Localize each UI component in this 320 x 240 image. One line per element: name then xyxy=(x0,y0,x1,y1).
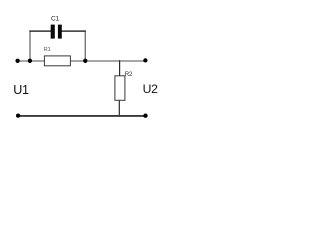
svg-text:U2: U2 xyxy=(143,82,159,96)
svg-text:R1: R1 xyxy=(44,47,51,53)
svg-text:R2: R2 xyxy=(125,71,133,78)
svg-text:U1: U1 xyxy=(13,83,29,97)
svg-text:C1: C1 xyxy=(51,16,59,23)
